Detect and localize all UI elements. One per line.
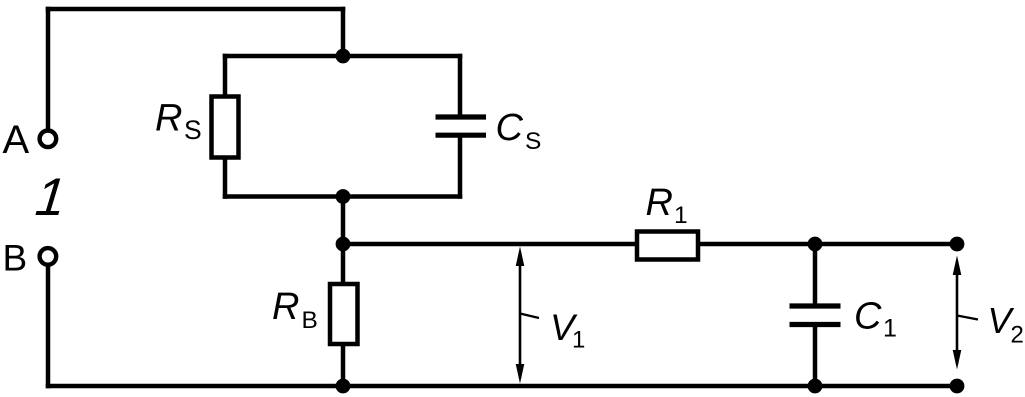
terminal B xyxy=(40,248,57,265)
wire junction to node B-row xyxy=(341,197,346,285)
svg-text:B: B xyxy=(3,238,28,279)
svg-text:S: S xyxy=(525,128,541,155)
voltage arrow V1 xyxy=(516,247,539,384)
label port 1 xyxy=(33,168,69,227)
wire R_B bottom to ground rail xyxy=(341,344,346,386)
svg-text:1: 1 xyxy=(572,327,585,354)
wire parallel-loop top rail xyxy=(225,54,460,59)
svg-text:R: R xyxy=(646,182,673,224)
wire vertical into parallel loop top junction xyxy=(341,9,346,56)
svg-text:1: 1 xyxy=(883,315,897,343)
wire terminal B down to bottom rail xyxy=(46,267,51,386)
node junction right bottom xyxy=(950,379,965,394)
wire left vertical from top rail to terminal A xyxy=(46,9,51,129)
node junction top of loop xyxy=(336,49,351,64)
resistor R1 xyxy=(637,232,698,260)
svg-text:R: R xyxy=(272,286,299,328)
capacitor CS xyxy=(436,117,487,135)
voltage arrow V2 xyxy=(953,256,978,370)
wire loop right vertical lower xyxy=(458,138,463,197)
svg-text:C: C xyxy=(854,296,882,338)
wire C1 bottom lead xyxy=(813,327,818,386)
terminal A xyxy=(40,131,57,148)
svg-text:2: 2 xyxy=(1011,322,1024,349)
wire mid horizontal to R1 xyxy=(343,242,637,247)
wire top rail xyxy=(48,7,343,12)
wire bottom rail xyxy=(48,384,957,389)
resistor RB xyxy=(330,284,358,344)
svg-text:A: A xyxy=(3,118,30,162)
svg-text:R: R xyxy=(155,98,182,140)
node junction C1 bottom xyxy=(808,379,823,394)
svg-text:C: C xyxy=(496,107,524,149)
wire loop right vertical upper xyxy=(458,56,463,115)
node junction mid rail xyxy=(336,237,351,252)
svg-text:1: 1 xyxy=(674,202,688,229)
wire parallel-loop bottom rail xyxy=(225,194,460,199)
wire loop left vertical lower xyxy=(223,157,228,197)
node junction bottom of loop xyxy=(336,189,351,204)
svg-text:S: S xyxy=(184,115,202,145)
svg-text:B: B xyxy=(302,307,318,334)
node junction C1 top xyxy=(808,237,823,252)
wire R1 to right node xyxy=(698,242,957,247)
capacitor C1 xyxy=(790,306,841,325)
wire C1 top lead xyxy=(813,244,818,304)
resistor RS xyxy=(212,97,239,158)
wire loop left vertical upper xyxy=(223,56,228,97)
node junction right top xyxy=(950,237,965,252)
node junction bottom rail below RB xyxy=(336,379,351,394)
svg-text:1: 1 xyxy=(33,168,69,227)
